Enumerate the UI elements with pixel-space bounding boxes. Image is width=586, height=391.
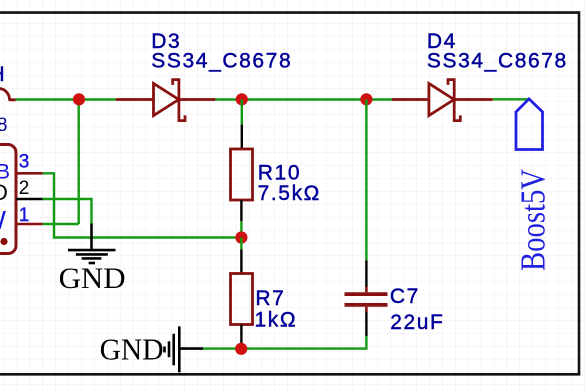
wire: junction B down (green part) (241, 100, 243, 125)
U1 pin 1 stub (16, 223, 43, 226)
diode D3 (116, 80, 216, 121)
svg-text:R7: R7 (255, 287, 285, 310)
wire: pin 2 to GND (43, 199, 92, 224)
wire: C7 to bottom rail (green) (203, 336, 366, 349)
diode D4 (392, 80, 493, 121)
wire: C7 top stub (black) (365, 260, 367, 287)
capacitor C7 (345, 287, 388, 313)
ground GND (bottom, rotated) (165, 326, 204, 372)
svg-text:GND: GND (59, 262, 126, 295)
svg-text:8: 8 (0, 115, 7, 136)
svg-text:SS34_C8678: SS34_C8678 (427, 49, 568, 72)
U1 polarity dot (0, 238, 7, 245)
svg-text:Boost5V: Boost5V (515, 169, 553, 271)
wire: R7 top stub (black) (240, 249, 242, 273)
IC U1 (partial, left edge) (0, 145, 16, 254)
wire: junction D to R7 (green) (240, 238, 242, 250)
wire: junction C down to C7 (green) (365, 100, 367, 261)
wire: R7 bottom stub (black) (240, 325, 242, 349)
ground GND (middle) (68, 224, 116, 264)
wire: junction B down to R10 (black part) (241, 124, 243, 149)
junction D (divider node) (235, 231, 247, 243)
wire: pin 3 to divider node (43, 173, 242, 237)
resistor R10 (231, 149, 253, 200)
wire: R10 bottom stub (black) (240, 200, 242, 221)
junction B (236, 93, 248, 105)
U1 pin 2 stub (16, 198, 43, 201)
resistor R7 (231, 274, 253, 325)
svg-text:C7: C7 (390, 285, 420, 308)
svg-text:7.5kΩ: 7.5kΩ (258, 182, 321, 205)
svg-text:W: W (0, 205, 6, 235)
U1 pin 3 stub (16, 172, 43, 175)
inductor L1 (partial, left edge) (0, 89, 16, 100)
wire: pin 1 to junction A leg (43, 223, 79, 225)
junction A (73, 93, 85, 105)
net port Boost5V (516, 99, 543, 150)
sheet border bottom (0, 373, 580, 376)
svg-text:H: H (0, 63, 6, 86)
svg-text:22uF: 22uF (390, 311, 444, 334)
svg-text:3: 3 (19, 152, 30, 173)
svg-text:1: 1 (19, 205, 30, 226)
wire: C7 bottom stub (black) (365, 312, 367, 336)
svg-text:D: D (0, 180, 8, 205)
junction E (bottom rail) (235, 343, 247, 355)
junction C (360, 93, 372, 105)
svg-text:SS34_C8678: SS34_C8678 (151, 49, 292, 72)
sheet border top (0, 11, 579, 14)
wire: junction A down to pin1 (77, 100, 79, 225)
wire: D4 cathode to port (493, 98, 529, 100)
svg-text:2: 2 (19, 178, 30, 199)
wire net SW: inductor to D3 anode (16, 98, 116, 100)
svg-text:R10: R10 (258, 161, 301, 184)
svg-text:1kΩ: 1kΩ (255, 309, 298, 332)
svg-text:GND: GND (100, 332, 164, 367)
wire: D3 cathode to junction B and on to junction C (215, 98, 392, 100)
sheet border right (578, 11, 581, 374)
wire: R10 to junction D (green) (240, 221, 242, 237)
